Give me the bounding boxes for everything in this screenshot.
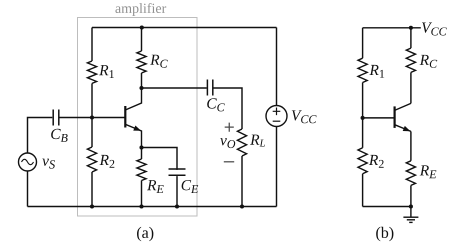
node: base node junction dot (b) bbox=[361, 116, 365, 120]
label + (output polarity) bbox=[225, 123, 234, 132]
node: collector node junction dot bbox=[139, 86, 143, 90]
wire: R_E bottom lead (b) bbox=[410, 185, 412, 206]
resistor R2 bbox=[87, 147, 96, 172]
transistor Q1 (NPN) bbox=[125, 88, 141, 148]
wire: base node to transistor base bbox=[92, 117, 125, 119]
label C_C bbox=[207, 98, 225, 111]
node: R2 bottom junction dot bbox=[90, 204, 94, 208]
wire: vs bottom to ground rail bbox=[27, 171, 29, 207]
wire: R_L bottom lead bbox=[241, 156, 243, 207]
wire: emitter node to R_E top bbox=[141, 148, 143, 160]
label R_1 bbox=[99, 65, 114, 78]
wire: C_B right plate to base node bbox=[59, 117, 92, 119]
label minus (output polarity) bbox=[224, 161, 234, 163]
resistor R2 (b) bbox=[358, 148, 367, 174]
node: C_E bottom junction dot bbox=[175, 204, 179, 208]
label C_B bbox=[51, 129, 67, 142]
wire: V_CC bottom to ground rail bbox=[276, 127, 278, 207]
label R_E (a) bbox=[147, 180, 164, 193]
source V_CC (DC source) bbox=[266, 106, 287, 127]
wire: emitter to R_E top (b) bbox=[410, 131, 412, 160]
wire: base node to transistor base (b) bbox=[363, 117, 394, 119]
label C_E (a) bbox=[182, 180, 199, 193]
wire: R_C top lead (b) bbox=[410, 28, 412, 48]
wire: R_E bottom lead bbox=[141, 181, 143, 207]
source vs (AC sine source) bbox=[19, 153, 37, 171]
wire: C_C right plate to R_L top bbox=[213, 88, 242, 129]
node: emitter node junction dot bbox=[139, 145, 143, 149]
capacitor C_C bbox=[207, 80, 212, 96]
capacitor C_B bbox=[53, 110, 59, 126]
wire: base node to R2 top bbox=[91, 118, 93, 148]
wire: top supply rail bbox=[92, 27, 277, 29]
wire: R_C bottom to collector node bbox=[141, 73, 143, 88]
wire: R2 bottom lead (b) bbox=[362, 174, 364, 207]
label V_CC (b) bbox=[422, 23, 447, 36]
resistor R_C (b) bbox=[406, 48, 415, 72]
label R_L bbox=[250, 135, 265, 147]
wire: R1 top lead bbox=[91, 28, 93, 62]
label R_C (a) bbox=[150, 55, 168, 68]
wire: top rail corner down to V_CC source bbox=[276, 28, 278, 106]
resistor R_C bbox=[137, 51, 146, 73]
label R_2 bbox=[100, 155, 115, 168]
capacitor C_E bbox=[169, 169, 186, 175]
ground bbox=[403, 207, 418, 223]
resistor R_L bbox=[237, 129, 246, 156]
wire: bottom rail (b) bbox=[363, 206, 411, 208]
label R_E (b) bbox=[420, 165, 437, 178]
node: R_E bottom junction dot bbox=[139, 204, 143, 208]
node: V_CC junction dot (b) bbox=[409, 26, 413, 30]
label (b) bbox=[376, 227, 393, 242]
label v_S bbox=[42, 159, 55, 169]
label R_C (b) bbox=[420, 55, 438, 68]
node: top rail junction dot at R_C branch bbox=[140, 25, 144, 29]
node: R_L bottom junction dot bbox=[240, 204, 244, 208]
label V_CC (a) bbox=[292, 110, 317, 123]
label R_2 (b) bbox=[369, 155, 384, 168]
resistor R_E (a) bbox=[137, 159, 146, 181]
wire: R_C top lead bbox=[141, 28, 143, 52]
wire: emitter node to C_E top bbox=[142, 148, 178, 170]
wire: R1 bottom to base node (b) bbox=[362, 83, 364, 118]
label R_1 (b) bbox=[369, 65, 384, 78]
resistor R_E (b) bbox=[406, 161, 415, 186]
wire: R1 bottom to base node bbox=[91, 83, 93, 117]
node: base node junction dot bbox=[90, 115, 94, 119]
label: amplifier bbox=[115, 3, 166, 16]
wire: R2 bottom lead bbox=[91, 172, 93, 207]
node: ground junction dot (b) bbox=[409, 204, 413, 208]
resistor R1 (b) bbox=[358, 58, 367, 82]
wire: collector node to C_C left plate bbox=[142, 87, 207, 89]
wire: top rail (b) bbox=[363, 27, 421, 29]
amplifier enclosure box bbox=[78, 18, 198, 217]
wire: R1 top lead (b) bbox=[362, 28, 364, 58]
resistor R1 bbox=[87, 61, 96, 83]
wire: bottom ground rail bbox=[28, 206, 277, 208]
transistor Q2 (NPN) bbox=[395, 103, 411, 131]
wire: base node to R2 top (b) bbox=[362, 118, 364, 148]
wire: vs top to C_B left plate bbox=[28, 118, 53, 154]
wire: R_C bottom to collector (b) bbox=[410, 72, 412, 103]
wire: C_E bottom lead bbox=[176, 176, 178, 206]
label (a) bbox=[137, 227, 153, 242]
label v_O bbox=[220, 138, 235, 148]
